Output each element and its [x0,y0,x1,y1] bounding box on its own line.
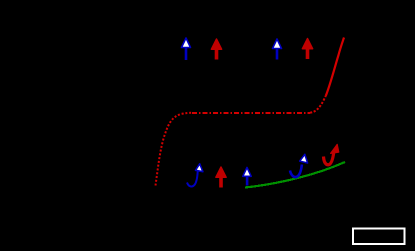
green energy curve [245,162,345,188]
red dashed magnetization curve: steep right rise (near solid) [326,38,344,96]
bottom red aligned spin arrow [216,167,226,188]
bottom blue spin arrow on green curve [243,168,251,186]
red dashed magnetization curve: right bend (dotted) [310,96,326,113]
top red spin arrow 1 [211,39,221,60]
red dashed magnetization curve: saturation plateau (dash-dot) [192,112,310,114]
bottom red rotating spin curved arrow [324,144,339,164]
white legend box [353,229,405,245]
top red spin arrow 2 [302,39,312,60]
bottom blue precessing spin hook 2 [290,154,308,177]
top blue spin arrow 1 [182,38,191,60]
red dashed magnetization curve: left rising branch (dotted) [156,113,193,186]
bottom blue precessing spin hook 1 [187,164,203,187]
top blue spin arrow 2 [273,39,282,60]
